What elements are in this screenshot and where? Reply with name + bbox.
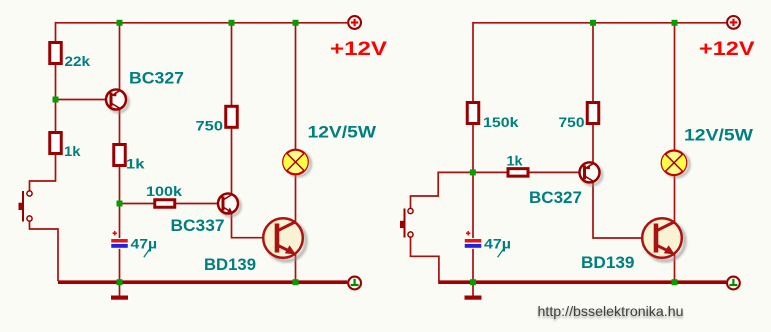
svg-text:12V/5W: 12V/5W (684, 126, 754, 145)
svg-text:750: 750 (196, 118, 224, 134)
svg-text:1k: 1k (507, 153, 523, 169)
svg-text:BD139: BD139 (581, 254, 635, 272)
svg-text:22k: 22k (65, 53, 91, 69)
svg-text:BC337: BC337 (171, 217, 225, 235)
svg-text:+12V: +12V (330, 38, 387, 60)
svg-text:750: 750 (559, 114, 585, 130)
svg-text:12V/5W: 12V/5W (308, 123, 378, 142)
svg-text:47µ: 47µ (484, 236, 511, 252)
svg-text:+12V: +12V (699, 38, 755, 60)
svg-text:1k: 1k (64, 143, 81, 159)
svg-text:150k: 150k (483, 114, 519, 130)
svg-text:BC327: BC327 (129, 70, 184, 88)
svg-text:http://bsselektronika.hu: http://bsselektronika.hu (538, 303, 684, 319)
svg-text:100k: 100k (146, 183, 182, 199)
svg-text:1k: 1k (126, 156, 145, 172)
svg-text:BC327: BC327 (529, 189, 582, 207)
svg-text:BD139: BD139 (204, 256, 256, 274)
svg-text:47µ: 47µ (131, 236, 158, 252)
